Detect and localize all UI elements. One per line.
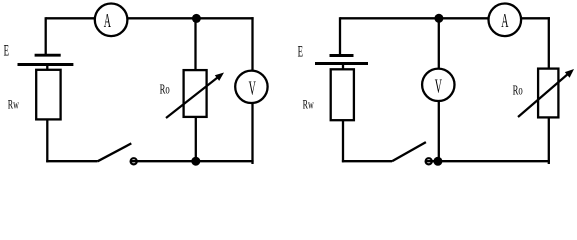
- wire middle branch upper (junction down to Ro): [194, 18, 196, 71]
- battery E (left circuit): long plate: [18, 63, 74, 66]
- wire middle branch lower (voltmeter to bottom junction, right circuit): [438, 101, 440, 161]
- wire left branch vertical (top corner down to battery): [45, 17, 47, 55]
- rheostat Ro arrowhead (left circuit): [215, 73, 224, 81]
- wire top-right segment (ammeter to top-right corner): [127, 17, 254, 19]
- node junction bottom (right circuit): [433, 157, 442, 166]
- svg-text:Ro: Ro: [160, 81, 170, 97]
- svg-text:A: A: [501, 11, 509, 33]
- rheostat Ro arrow shaft (right circuit): [518, 74, 569, 118]
- node junction top (left circuit): [192, 14, 201, 23]
- rheostat Ro arrow shaft (left circuit): [166, 77, 219, 118]
- resistor Rw (right circuit): [331, 69, 354, 120]
- switch S1 blade (left circuit): [98, 143, 132, 161]
- wire battery to Rw stub: [46, 65, 48, 71]
- svg-text:Ro: Ro: [513, 82, 523, 98]
- svg-text:E: E: [4, 41, 9, 60]
- ammeter A (right circuit): [489, 4, 522, 37]
- rheostat Ro body (right circuit): [538, 69, 558, 118]
- wire right branch upper (top corner down to voltmeter): [251, 17, 253, 71]
- rheostat Ro body (left circuit): [184, 70, 207, 117]
- svg-text:V: V: [435, 76, 443, 98]
- resistor Rw (left circuit): [36, 70, 60, 120]
- wire bottom-left segment (corner to switch pivot, right circuit): [342, 160, 392, 162]
- wire top-left segment (corner to ammeter): [46, 17, 96, 19]
- wire middle branch upper (junction to voltmeter, right circuit): [438, 18, 440, 69]
- battery E (left circuit): short plate: [35, 54, 61, 57]
- svg-text:Rw: Rw: [303, 97, 314, 111]
- battery E (right circuit): long plate: [315, 62, 368, 65]
- node junction top (right circuit): [434, 14, 443, 23]
- wire bottom-right segment (switch to corner, right circuit): [426, 160, 550, 162]
- wire left branch vertical (corner down to battery, right circuit): [339, 17, 341, 55]
- wire top-left segment (corner to ammeter, right circuit): [340, 17, 490, 19]
- ammeter A (left circuit): [95, 4, 128, 37]
- wire bottom-right segment (switch to bottom-right corner): [131, 160, 254, 162]
- switch S1 contact circle (left circuit): [131, 158, 137, 164]
- battery E (right circuit): short plate: [330, 54, 354, 57]
- wire Rw down to bottom wire: [46, 119, 48, 162]
- rheostat Ro arrowhead (right circuit): [565, 69, 574, 78]
- svg-text:V: V: [249, 78, 257, 100]
- wire right branch lower (voltmeter down to bottom corner): [251, 103, 253, 164]
- wire middle branch lower (Ro down to bottom junction): [195, 117, 197, 161]
- svg-text:E: E: [298, 41, 303, 60]
- wire right branch upper (corner down to Ro, right circuit): [548, 17, 550, 69]
- wire bottom-left segment (corner to switch pivot): [46, 160, 97, 162]
- switch S2 blade (right circuit): [392, 142, 426, 161]
- node junction bottom (left circuit): [191, 157, 200, 166]
- wire Rw down to bottom wire (right circuit): [342, 120, 344, 162]
- voltmeter V (left circuit): [235, 71, 267, 103]
- wire right branch lower (Ro down to bottom corner, right circuit): [548, 117, 550, 164]
- switch S2 contact circle (right circuit): [426, 158, 432, 164]
- wire battery to Rw stub (right circuit): [342, 64, 344, 71]
- svg-text:A: A: [104, 11, 112, 33]
- wire top-right segment (ammeter to corner, right circuit): [521, 17, 550, 19]
- svg-text:Rw: Rw: [8, 98, 19, 112]
- voltmeter V (right circuit): [422, 69, 454, 101]
